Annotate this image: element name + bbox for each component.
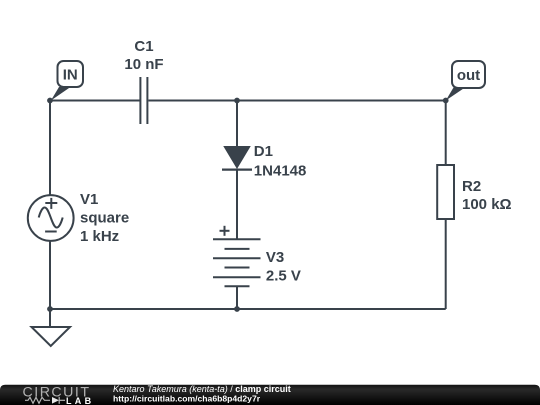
battery V3 xyxy=(213,226,261,286)
diode D1 xyxy=(222,147,252,170)
footer bar xyxy=(0,385,540,405)
wire left upper (IN node down to V1 top) xyxy=(49,101,51,197)
wire middle (D1 cathode to V3 top) xyxy=(236,170,238,240)
voltage source V1 xyxy=(28,195,74,241)
wire left lower (V1 bottom to ground node) xyxy=(49,240,51,309)
svg-text:square: square xyxy=(80,210,129,227)
wire middle lower (V3 bottom to bottom rail) xyxy=(236,286,238,309)
junction dot bottom middle xyxy=(234,306,240,312)
wire right upper (out node to R2 top) xyxy=(445,101,447,166)
wire bottom (ground node to R2 bottom) xyxy=(50,308,446,310)
label V3 value xyxy=(266,249,301,284)
node out flag xyxy=(446,61,485,101)
wire middle upper (top node down to D1 anode) xyxy=(236,101,238,148)
wire ground stub xyxy=(49,309,51,327)
label C1 value xyxy=(124,38,163,73)
svg-text:V1: V1 xyxy=(80,191,98,208)
wire right lower (R2 bottom to bottom rail) xyxy=(445,219,447,309)
svg-text:LAB: LAB xyxy=(66,396,94,405)
ground xyxy=(32,327,71,346)
logo resistor-diode symbol xyxy=(25,397,65,404)
svg-text:V3: V3 xyxy=(266,249,284,266)
svg-text:out: out xyxy=(457,67,480,84)
svg-text:2.5 V: 2.5 V xyxy=(266,267,301,284)
node IN flag xyxy=(51,61,83,101)
svg-text:1 kHz: 1 kHz xyxy=(80,228,119,245)
wire top-left (IN node to C1 left plate) xyxy=(50,100,140,102)
node out junction dot xyxy=(443,98,449,104)
svg-text:http://circuitlab.com/cha6b8p4: http://circuitlab.com/cha6b8p4d2y7r xyxy=(113,393,261,403)
label R2 value xyxy=(462,178,512,213)
label V1 value xyxy=(80,191,129,245)
resistor R2 xyxy=(437,165,454,219)
node IN junction dot xyxy=(47,98,53,104)
svg-text:10 nF: 10 nF xyxy=(124,56,163,73)
junction dot ground xyxy=(47,306,53,312)
svg-text:D1: D1 xyxy=(254,143,273,160)
svg-text:100 kΩ: 100 kΩ xyxy=(462,196,512,213)
junction dot top middle xyxy=(234,98,240,104)
capacitor C1 xyxy=(140,77,147,124)
label D1 value xyxy=(254,143,307,180)
svg-text:C1: C1 xyxy=(134,38,153,55)
svg-text:1N4148: 1N4148 xyxy=(254,163,307,180)
svg-text:IN: IN xyxy=(63,67,78,84)
svg-text:R2: R2 xyxy=(462,178,481,195)
wire top-right (C1 right plate to out node) xyxy=(148,100,445,102)
